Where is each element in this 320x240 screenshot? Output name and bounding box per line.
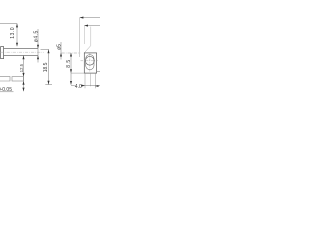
- svg-text:18.5: 18.5: [43, 62, 49, 72]
- svg-text:ø4.5: ø4.5: [33, 30, 39, 42]
- svg-text:13.0: 13.0: [10, 27, 16, 39]
- svg-text:8.5: 8.5: [66, 59, 72, 67]
- svg-text:4.0: 4.0: [75, 84, 82, 90]
- svg-text:ø5: ø5: [56, 44, 62, 50]
- svg-text:12.5: 12.5: [19, 63, 24, 72]
